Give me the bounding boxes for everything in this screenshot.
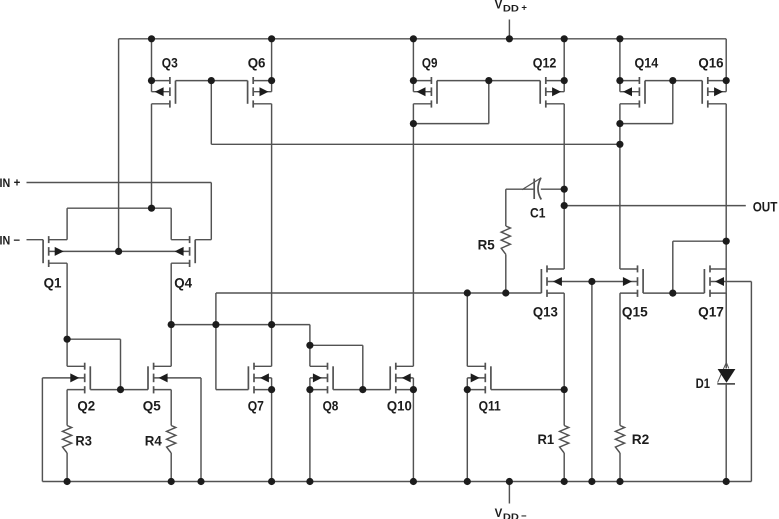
node Q3 source rail junction — [148, 35, 155, 42]
svg-text:IN: IN — [0, 235, 10, 247]
wire Q8 drain up — [309, 345, 311, 366]
wire Q12 drain down — [563, 104, 565, 269]
node Q8/Q10 gates — [359, 386, 366, 393]
node Q14 source rail junction — [616, 35, 623, 42]
wire R5 top from C1 — [506, 188, 534, 190]
transistor Q3 — [152, 77, 176, 108]
wire Q14 gate to Q16 gate — [645, 80, 702, 82]
node R1 rail — [561, 478, 568, 485]
svg-text:IN: IN — [0, 178, 10, 190]
wire Q2 source to R3 — [66, 390, 68, 426]
svg-text:Q6: Q6 — [248, 55, 266, 71]
wire Q11 gate lead — [491, 389, 564, 391]
svg-text:Q10: Q10 — [387, 398, 412, 414]
node Q14 drain — [616, 120, 623, 127]
wire R1 to rail — [563, 453, 565, 482]
wire OUT lead — [564, 205, 746, 207]
wire Q8 gate branch down — [362, 345, 364, 389]
node Q2/Q5 gates — [117, 386, 124, 393]
wire Q4 drain down — [170, 263, 172, 366]
svg-text:V: V — [495, 0, 503, 12]
node Q9/Q12 gates — [485, 77, 492, 84]
resistor R2 — [615, 426, 624, 454]
node bulk line rail — [588, 478, 595, 485]
node Q11 source — [464, 386, 471, 393]
wire W2 down step — [309, 325, 311, 346]
transistor Q17 — [704, 265, 726, 297]
wire VDD+ top rail — [119, 38, 727, 40]
svg-text:Q16: Q16 — [698, 55, 723, 71]
wire output gates up — [672, 241, 674, 293]
wire Q9 gate to Q12 gate — [437, 80, 540, 82]
node Q15/Q17 gates — [669, 290, 676, 297]
node Q11 rail — [464, 478, 471, 485]
node Q16/Q17 drains — [723, 238, 730, 245]
node C1 right — [561, 186, 568, 193]
wire Q15 gate to Q17 gate — [643, 292, 704, 294]
transistor Q11 — [467, 363, 491, 394]
svg-text:Q8: Q8 — [323, 397, 339, 413]
node R3 rail — [64, 478, 71, 485]
node VDD- junction — [506, 478, 513, 485]
wire Q5 source to R4 — [170, 390, 172, 426]
node R4 rail — [168, 478, 175, 485]
svg-text:DD: DD — [503, 512, 519, 519]
wire Q1/Q2 node across — [67, 338, 120, 340]
wire R4 to rail — [170, 453, 172, 482]
svg-text:Q9: Q9 — [422, 55, 438, 71]
svg-text:Q13: Q13 — [533, 303, 558, 319]
node Q4/Q5 drains — [168, 321, 175, 328]
wire Q8-Q10 gate line — [333, 389, 390, 391]
node output bulk tie — [588, 278, 595, 285]
svg-text:Q12: Q12 — [533, 55, 557, 71]
svg-text:R5: R5 — [478, 236, 495, 252]
node Q3 source — [148, 77, 155, 84]
wire Q12 source to rail — [563, 39, 565, 81]
node Q6 source rail junction — [268, 35, 275, 42]
wire left rail to input-pair bulk — [118, 39, 120, 252]
node Q6/Q7 drains — [268, 321, 275, 328]
wire bulk line down to rail — [591, 282, 593, 482]
svg-text:R2: R2 — [632, 431, 650, 447]
wire bias line to Q14 drain — [211, 143, 620, 145]
wire Q11 source to rail — [466, 390, 468, 482]
node Q12 source rail junction — [561, 35, 568, 42]
wire Q17 bulk to rail — [710, 281, 751, 283]
wire IN+ lead — [27, 182, 212, 184]
wire Q2 bulk to rail — [42, 377, 84, 379]
wire Q3 source to rail — [151, 39, 153, 81]
svg-text:Q4: Q4 — [174, 275, 192, 291]
node Q9 source — [410, 77, 417, 84]
node tail current join — [148, 205, 155, 212]
svg-text:Q7: Q7 — [248, 397, 264, 413]
wire Q14 source to rail — [619, 39, 621, 81]
wire VDD+ stub — [508, 20, 510, 39]
wire VDD- stub — [508, 482, 510, 504]
node Q8 source — [306, 386, 313, 393]
node bias line join — [616, 141, 623, 148]
svg-text:Q14: Q14 — [635, 55, 659, 71]
wire IN+ down to Q4 gate — [210, 183, 212, 240]
diode D1 — [718, 362, 727, 382]
node Q12 source — [561, 77, 568, 84]
svg-text:Q3: Q3 — [162, 55, 178, 71]
svg-text:DD: DD — [503, 3, 519, 13]
wire Q15 source down to R2 — [619, 293, 621, 425]
node D1 rail — [723, 478, 730, 485]
wire Q7 drain up — [271, 325, 273, 367]
svg-text:C1: C1 — [530, 205, 546, 221]
wire Q1 drain down — [66, 263, 68, 366]
node Q7 source — [268, 386, 275, 393]
transistor Q13 — [541, 265, 564, 297]
wire R3 to rail — [66, 453, 68, 482]
wire second-stage node W2 — [171, 324, 310, 326]
svg-text:Q5: Q5 — [143, 397, 161, 413]
node Q10 rail — [410, 478, 417, 485]
node Q3/Q6 gates — [208, 77, 215, 84]
node Q9 source rail junction — [410, 35, 417, 42]
svg-text:Q17: Q17 — [698, 303, 724, 319]
wire Q5 bulk to rail — [154, 377, 201, 379]
wire Q14 drain down to Q15 — [619, 104, 621, 269]
node Q11 drain on N1 — [464, 289, 471, 296]
wire input pair bulk tie — [49, 250, 190, 252]
wire Q10 source to rail — [412, 390, 414, 482]
transistor Q4 — [171, 236, 195, 267]
node W2/Q7 gate — [212, 321, 219, 328]
node Q7 rail — [268, 478, 275, 485]
resistor R5 — [501, 226, 510, 254]
transistor Q14 — [620, 77, 645, 108]
transistor Q9 — [413, 77, 437, 108]
transistor Q1 — [43, 236, 67, 267]
svg-text:Q15: Q15 — [622, 303, 648, 319]
wire D1 to rail — [725, 384, 727, 482]
transistor Q7 — [248, 363, 271, 394]
node Q9 drain — [410, 120, 417, 127]
svg-text:R1: R1 — [538, 431, 555, 447]
node Q1/Q2 drains — [64, 336, 71, 343]
wire Q9 diode connection down — [488, 81, 490, 124]
transistor Q8 — [310, 363, 333, 394]
node input bulk tie — [115, 248, 122, 255]
svg-text:D1: D1 — [696, 375, 711, 391]
node Q6 source — [268, 77, 275, 84]
wire R2 to rail — [619, 453, 621, 482]
svg-text:R4: R4 — [145, 432, 162, 448]
wire Q2/Q5 gate node down — [120, 339, 122, 389]
svg-text:Q11: Q11 — [479, 398, 501, 414]
node Q5 bulk rail — [197, 478, 204, 485]
resistor R1 — [560, 426, 569, 454]
node Q14/Q16 gates — [669, 77, 676, 84]
transistor Q10 — [390, 363, 413, 394]
wire Q14 diode connection down — [672, 81, 674, 124]
wire Q17 source down to D1 — [725, 293, 727, 368]
wire node up from W2 — [215, 293, 217, 390]
wire Q9 source to rail — [412, 39, 414, 81]
transistor Q5 — [148, 363, 171, 394]
node Q8 drain branch — [306, 342, 313, 349]
wire Q6 source to rail — [271, 39, 273, 81]
node Q10 source — [410, 386, 417, 393]
svg-text:+: + — [521, 2, 527, 13]
node Q16 source — [723, 77, 730, 84]
wire Q14 diode connection across — [620, 123, 673, 125]
wire Q16 source to rail — [725, 39, 727, 81]
wire Q13/Q15 bulk line — [547, 281, 638, 283]
svg-text:V: V — [495, 508, 503, 519]
wire Q3/Q6 gates down — [210, 81, 212, 145]
wire R5 bottom to N1 — [505, 254, 507, 293]
wire W2 across to Q8 gate branch — [310, 344, 363, 346]
wire C1 to Q12 drain — [541, 188, 564, 190]
wire IN- lead — [27, 239, 44, 241]
svg-text:−: − — [521, 511, 527, 519]
wire Q9 drain down to Q10 — [412, 104, 414, 367]
svg-text:+: + — [14, 178, 21, 190]
node Q8 rail — [306, 478, 313, 485]
svg-text:−: − — [13, 235, 20, 247]
wire Q2 gate to Q5 gate — [90, 389, 148, 391]
wire Q3-Q6 gate node — [176, 80, 248, 82]
node Q11 gate / R1 top — [561, 386, 568, 393]
capacitor C1 — [533, 179, 535, 199]
wire Q3 drain down — [151, 104, 153, 208]
node R2 rail — [616, 478, 623, 485]
wire Q7 source to rail — [271, 390, 273, 482]
transistor Q15 — [620, 265, 643, 297]
svg-text:OUT: OUT — [753, 198, 778, 214]
svg-text:Q2: Q2 — [77, 397, 95, 413]
wire Q13 source down to R1 — [563, 293, 565, 425]
transistor Q2 — [67, 363, 90, 394]
node OUT — [561, 202, 568, 209]
node R5/Q13 gate — [502, 289, 509, 296]
transistor Q6 — [248, 77, 272, 108]
svg-text:Q1: Q1 — [44, 275, 62, 291]
wire Q6 drain down — [271, 104, 273, 325]
wire N1 mirror line — [216, 292, 542, 294]
wire Q7 gate lead — [216, 389, 249, 391]
transistor Q16 — [702, 77, 726, 108]
wire Q16 drain down — [725, 104, 727, 369]
wire Q9 diode connection across — [413, 123, 488, 125]
wire Q11 drain up to N1 — [466, 293, 468, 366]
wire Q8 source to rail — [309, 390, 311, 482]
svg-text:R3: R3 — [75, 432, 92, 448]
node Q14 source — [616, 77, 623, 84]
resistor R3 — [63, 426, 72, 454]
resistor R4 — [167, 426, 176, 454]
node VDD+ junction — [506, 35, 513, 42]
wire diff-pair source rail — [67, 207, 171, 209]
transistor Q12 — [540, 77, 564, 108]
wire VDD- bottom rail — [42, 481, 751, 483]
